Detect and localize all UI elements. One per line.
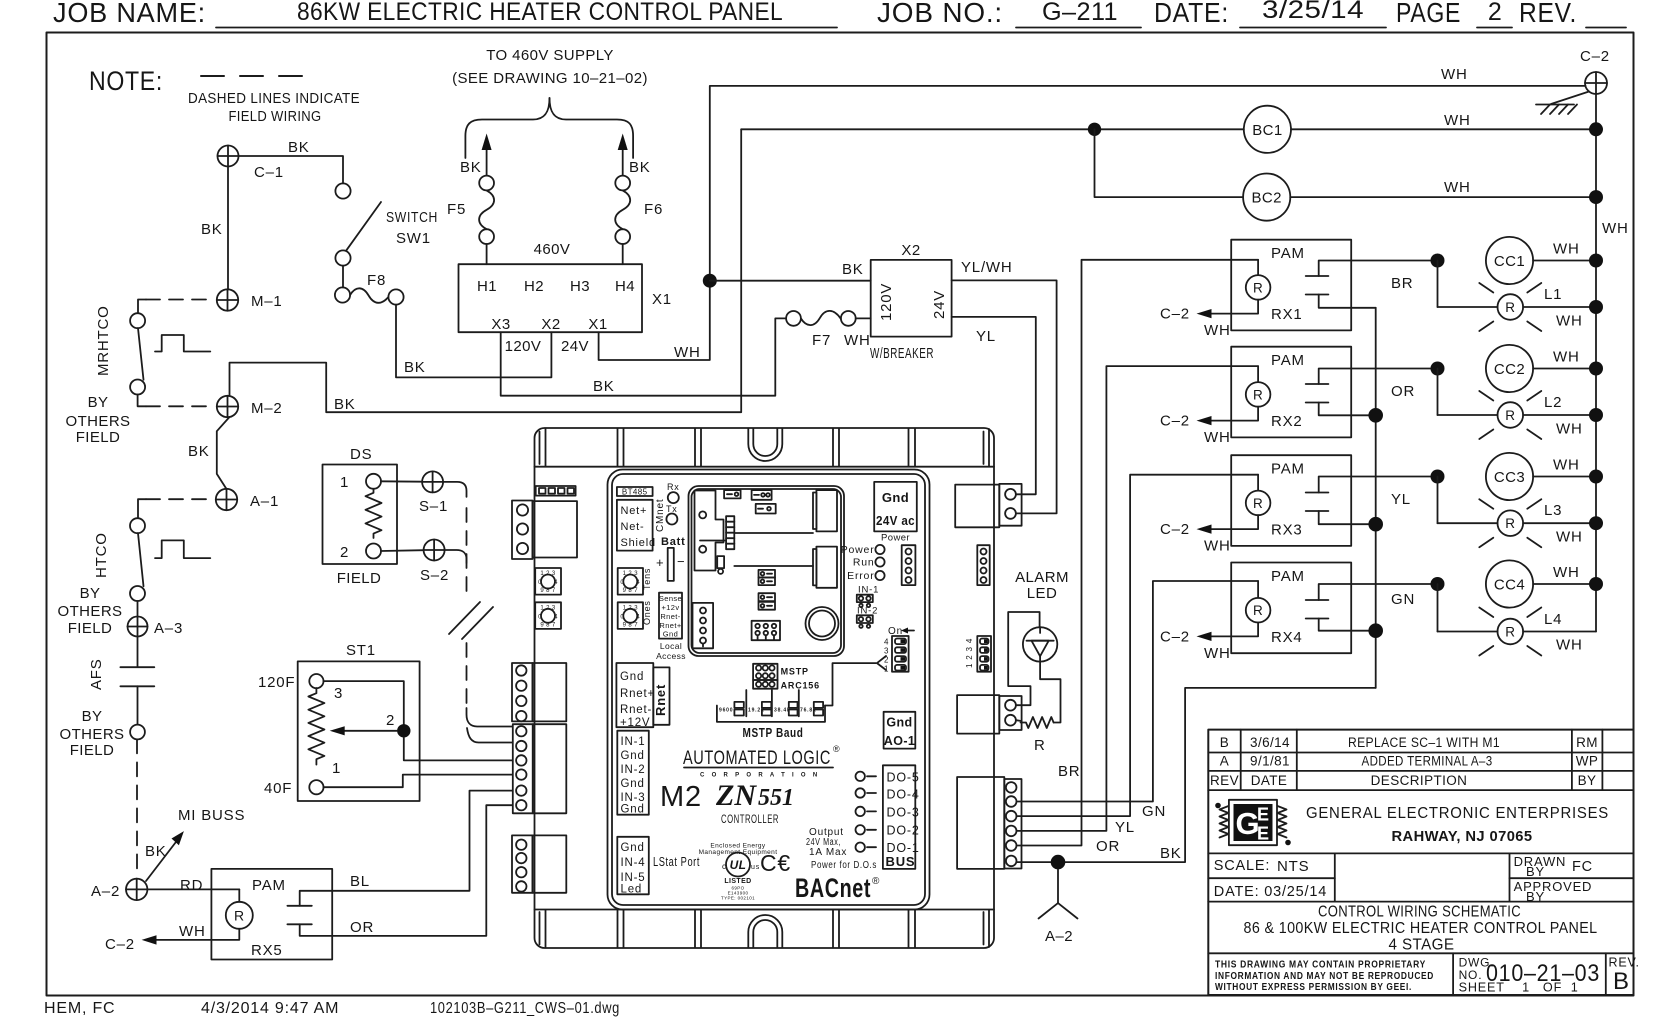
svg-text:WH: WH bbox=[1553, 457, 1580, 474]
svg-text:R: R bbox=[1253, 496, 1263, 511]
pilot light L4 bbox=[1438, 584, 1597, 656]
svg-text:DO-3: DO-3 bbox=[887, 806, 920, 820]
wire C-2 arrow RX2 bbox=[1160, 407, 1258, 446]
rotary dial left 1 bbox=[535, 568, 561, 595]
terminal M-2 bbox=[217, 396, 283, 417]
junction dot L3 right bbox=[1589, 516, 1603, 530]
ground symbol bbox=[1536, 92, 1589, 115]
svg-text:IN-2: IN-2 bbox=[621, 764, 646, 776]
svg-text:PAM: PAM bbox=[1271, 568, 1305, 585]
svg-text:ARC156: ARC156 bbox=[781, 681, 820, 691]
svg-text:R: R bbox=[1253, 387, 1263, 402]
svg-text:BY: BY bbox=[1578, 773, 1597, 788]
jumper IN-2 bbox=[857, 606, 878, 628]
svg-text:WH: WH bbox=[1556, 421, 1583, 438]
svg-text:CC2: CC2 bbox=[1494, 361, 1525, 378]
svg-text:TYPE: 002101: TYPE: 002101 bbox=[721, 896, 755, 901]
connector right flange 4pin bbox=[977, 545, 989, 585]
svg-text:Batt: Batt bbox=[661, 536, 686, 548]
svg-text:551: 551 bbox=[758, 785, 794, 811]
svg-text:X1: X1 bbox=[652, 291, 672, 308]
svg-text:0: 0 bbox=[538, 615, 542, 621]
connector 3x3 grid bbox=[752, 621, 780, 640]
svg-text:Rnet-: Rnet- bbox=[620, 704, 652, 716]
svg-text:ALARM: ALARM bbox=[1015, 569, 1069, 586]
header date label bbox=[1154, 0, 1229, 28]
svg-text:B: B bbox=[1613, 968, 1630, 995]
svg-text:Rnet+: Rnet+ bbox=[620, 688, 655, 700]
arrow MI BUSS bbox=[145, 807, 245, 881]
company name bbox=[1306, 805, 1609, 845]
label 120F wiper 2 bbox=[386, 712, 395, 729]
drawing title bbox=[1244, 904, 1598, 954]
svg-text:24V: 24V bbox=[561, 338, 589, 355]
svg-text:NTS: NTS bbox=[1277, 858, 1309, 875]
svg-text:BUS: BUS bbox=[886, 854, 916, 869]
wire F5 to H1 bbox=[486, 244, 488, 264]
cable hash marks bbox=[449, 602, 493, 639]
svg-text:3/6/14: 3/6/14 bbox=[1250, 735, 1290, 750]
svg-text:PAM: PAM bbox=[1271, 245, 1305, 262]
svg-text:DATE:: DATE: bbox=[1154, 0, 1229, 28]
svg-text:BK: BK bbox=[188, 443, 210, 460]
label by others field 1 bbox=[66, 394, 131, 446]
svg-text:460V: 460V bbox=[534, 241, 571, 258]
svg-text:PAM: PAM bbox=[252, 877, 286, 894]
svg-text:SW1: SW1 bbox=[396, 230, 431, 247]
svg-text:0: 0 bbox=[620, 580, 624, 586]
svg-text:L3: L3 bbox=[1544, 502, 1562, 519]
svg-text:A–2: A–2 bbox=[1045, 928, 1073, 945]
svg-text:OTHERS: OTHERS bbox=[66, 413, 131, 430]
svg-text:DO-2: DO-2 bbox=[887, 824, 920, 838]
svg-text:1 2 3: 1 2 3 bbox=[623, 571, 639, 577]
jumper small 2 bbox=[752, 490, 772, 500]
wire YL X2 24v common bbox=[952, 317, 1036, 494]
output terminal Gnd AO-1 bbox=[884, 712, 916, 749]
wire BK WH-node to X2 primary bbox=[710, 261, 871, 281]
revision header row bbox=[1210, 773, 1596, 788]
svg-text:1 2 3 4: 1 2 3 4 bbox=[965, 638, 974, 668]
svg-text:Gnd: Gnd bbox=[886, 716, 912, 730]
svg-text:THIS DRAWING MAY CONTAIN P: THIS DRAWING MAY CONTAIN PROPRIETARY bbox=[1215, 960, 1426, 971]
svg-text:A–2: A–2 bbox=[91, 883, 120, 900]
terminal block C 6-pin inputs bbox=[513, 724, 567, 813]
contactor coil CC3 bbox=[1486, 453, 1596, 500]
svg-text:FIELD: FIELD bbox=[68, 620, 113, 637]
svg-text:C€: C€ bbox=[760, 850, 791, 876]
wire dashed M-1 field bbox=[138, 300, 214, 314]
svg-text:BR: BR bbox=[1391, 275, 1413, 292]
svg-text:4 STAGE: 4 STAGE bbox=[1389, 937, 1455, 954]
svg-text:AFS: AFS bbox=[88, 658, 105, 690]
svg-text:MSTP: MSTP bbox=[781, 667, 809, 677]
svg-text:Net+: Net+ bbox=[621, 505, 648, 517]
svg-text:R: R bbox=[1505, 516, 1515, 531]
svg-text:CONTROL WIRING SCHEMATIC: CONTROL WIRING SCHEMATIC bbox=[1318, 904, 1521, 921]
svg-text:Local: Local bbox=[660, 641, 682, 651]
svg-text:FC: FC bbox=[1572, 859, 1593, 875]
wire F7 to X2 bbox=[856, 317, 871, 319]
svg-text:WH: WH bbox=[1444, 112, 1471, 129]
contactor coil CC1 bbox=[1486, 237, 1596, 284]
led alarm bbox=[1023, 627, 1057, 661]
relay block 1 bbox=[813, 490, 837, 531]
junction dot L1 right bbox=[1589, 300, 1603, 314]
svg-text:X3: X3 bbox=[491, 316, 510, 333]
connector Net block bbox=[617, 499, 666, 551]
svg-text:PAGE: PAGE bbox=[1396, 0, 1461, 28]
potentiometer ST1 bbox=[258, 642, 420, 801]
svg-text:Gnd: Gnd bbox=[882, 490, 909, 505]
svg-text:DATE: 03/25/14: DATE: 03/25/14 bbox=[1214, 884, 1327, 900]
note dashed-line sample bbox=[201, 75, 302, 77]
svg-text:WH: WH bbox=[1204, 538, 1231, 555]
terminal block A 3-pin bbox=[512, 501, 577, 560]
svg-text:R: R bbox=[1034, 737, 1046, 754]
svg-text:4: 4 bbox=[554, 615, 558, 621]
svg-text:4: 4 bbox=[554, 580, 558, 586]
junction dot rail RX2 bbox=[1368, 408, 1383, 423]
svg-text:BK: BK bbox=[201, 221, 223, 238]
footer filename text bbox=[430, 1000, 620, 1017]
svg-text:H2: H2 bbox=[524, 278, 544, 295]
junction dot WH node bbox=[703, 274, 717, 288]
header page value bbox=[1477, 0, 1512, 28]
svg-text:24V ac: 24V ac bbox=[876, 513, 915, 528]
svg-text:IN-3: IN-3 bbox=[621, 792, 646, 804]
svg-text:DS: DS bbox=[350, 446, 372, 463]
svg-text:LISTED: LISTED bbox=[724, 878, 751, 885]
wire C-2 arrow RX4 bbox=[1160, 623, 1258, 662]
svg-text:0: 0 bbox=[620, 615, 624, 621]
wire contact common rail bbox=[1375, 308, 1377, 688]
header page label bbox=[1396, 0, 1461, 28]
wire BL RX5 to controller bbox=[332, 791, 512, 891]
svg-text:REPLACE SC–1 WITH M1: REPLACE SC–1 WITH M1 bbox=[1348, 735, 1500, 750]
svg-text:WITHOUT EXPRESS PERMISSION: WITHOUT EXPRESS PERMISSION BY GEEI. bbox=[1215, 982, 1412, 993]
junction dot ST1 wiper bbox=[397, 724, 410, 737]
svg-text:Gnd: Gnd bbox=[621, 842, 645, 854]
controller M2 ZN551 outer shell bbox=[535, 428, 995, 948]
connector main polygon bbox=[695, 491, 724, 571]
label to 460v supply bbox=[452, 47, 648, 87]
terminal block 24vac right bbox=[955, 484, 1021, 527]
svg-text:REV.: REV. bbox=[1519, 0, 1577, 28]
svg-text:A–1: A–1 bbox=[250, 493, 279, 510]
wire C-2 arrow RX1 bbox=[1160, 300, 1258, 339]
dwg number field bbox=[1459, 956, 1600, 995]
relay PAM RX5 bbox=[211, 869, 332, 960]
svg-text:DATE: DATE bbox=[1251, 773, 1288, 788]
transformer X1 bbox=[459, 264, 672, 333]
svg-text:F6: F6 bbox=[644, 201, 663, 218]
svg-text:Gnd: Gnd bbox=[621, 750, 645, 762]
wire dashed field cable S-1/S-2 to controller bbox=[443, 482, 512, 743]
terminal A-1 bbox=[216, 489, 279, 510]
terminal C-2 top right bbox=[1580, 48, 1610, 94]
header rev label bbox=[1519, 0, 1626, 28]
svg-text:R: R bbox=[1253, 280, 1263, 295]
svg-text:OTHERS: OTHERS bbox=[58, 603, 123, 620]
header job no label bbox=[877, 0, 1003, 28]
wire BC2 branch bbox=[1095, 129, 1597, 197]
rev field bbox=[1609, 956, 1640, 996]
svg-text:WH: WH bbox=[1602, 220, 1629, 237]
junction dot CC4 right bbox=[1589, 577, 1603, 591]
junction dot BC feed bbox=[1088, 123, 1101, 136]
svg-text:FIELD: FIELD bbox=[70, 742, 115, 759]
svg-text:M2: M2 bbox=[660, 781, 702, 813]
wire dashed MRHTCO to M-2 bbox=[138, 395, 213, 407]
battery Batt bbox=[656, 536, 686, 581]
note label bbox=[89, 66, 163, 96]
terminal block DO right bbox=[957, 777, 1021, 869]
jumper mid 3 bbox=[759, 593, 776, 601]
svg-text:120V: 120V bbox=[505, 338, 542, 355]
led Rx Tx bbox=[666, 482, 680, 525]
svg-text:BACnet: BACnet bbox=[795, 873, 871, 903]
svg-text:BY: BY bbox=[1526, 864, 1545, 879]
buzzer ring bbox=[806, 607, 839, 640]
svg-text:2: 2 bbox=[386, 712, 395, 729]
svg-text:RD: RD bbox=[180, 877, 203, 894]
jumper MSTP bbox=[753, 664, 809, 680]
junction dot BC2 right bbox=[1589, 190, 1603, 204]
power terminal Gnd 24Vac bbox=[874, 482, 917, 544]
svg-text:9 8 7: 9 8 7 bbox=[540, 623, 556, 629]
junction dot CC2 left bbox=[1431, 362, 1445, 376]
resistor R alarm bbox=[1016, 717, 1054, 754]
svg-text:H1: H1 bbox=[477, 278, 497, 295]
jumper ARC156 bbox=[753, 680, 820, 691]
svg-text:3: 3 bbox=[884, 647, 889, 656]
wire SW1 to F8 bbox=[342, 266, 344, 288]
svg-text:Shield: Shield bbox=[621, 537, 656, 549]
svg-text:C–2: C–2 bbox=[1580, 48, 1610, 65]
svg-text:9 8 7: 9 8 7 bbox=[623, 623, 639, 629]
wire right rail WH bbox=[1596, 94, 1629, 632]
junction dot rail RX3 bbox=[1368, 517, 1383, 532]
svg-text:G–211: G–211 bbox=[1042, 0, 1118, 26]
wire dashed AFS to A-2 bbox=[136, 739, 138, 876]
wire OR RX5 to controller bbox=[332, 805, 512, 936]
wire alarm led anode bbox=[1008, 612, 1039, 705]
svg-text:HEM, FC: HEM, FC bbox=[44, 1000, 115, 1017]
jumper mid 2 bbox=[759, 578, 776, 586]
junction dot A-2 tap bbox=[1051, 855, 1066, 870]
terminal A-3 bbox=[128, 617, 184, 638]
component fuse small bbox=[717, 556, 724, 574]
terminal A-2 bbox=[91, 879, 147, 900]
wire OR DO to RX2 bbox=[1017, 366, 1259, 855]
svg-text:+12v: +12v bbox=[661, 603, 679, 612]
svg-text:BY: BY bbox=[88, 394, 109, 411]
svg-text:120F: 120F bbox=[258, 674, 295, 691]
label GN stage4 bbox=[1391, 591, 1415, 608]
footer date text bbox=[201, 1000, 339, 1017]
rotary dial Ones bbox=[618, 600, 652, 629]
terminal block B 4-pin bbox=[512, 663, 566, 721]
svg-text:WH: WH bbox=[1441, 66, 1468, 83]
svg-text:WH: WH bbox=[1553, 349, 1580, 366]
svg-text:Gnd: Gnd bbox=[621, 778, 645, 790]
svg-text:PAM: PAM bbox=[1271, 461, 1305, 478]
svg-text:BK: BK bbox=[460, 159, 482, 176]
svg-text:BC2: BC2 bbox=[1252, 190, 1282, 207]
svg-text:FIELD: FIELD bbox=[76, 429, 121, 446]
svg-text:ADDED TERMINAL A–3: ADDED TERMINAL A–3 bbox=[1362, 754, 1493, 769]
svg-text:4: 4 bbox=[884, 638, 889, 647]
brace 460v supply bbox=[465, 98, 633, 158]
connector Rnet block bbox=[616, 663, 669, 729]
svg-text:E: E bbox=[1257, 824, 1269, 844]
selector MSTP baud bbox=[717, 690, 825, 740]
fuse F7 bbox=[786, 311, 870, 349]
disconnect DS bbox=[323, 446, 398, 587]
rotary dial Tens bbox=[618, 568, 652, 595]
svg-text:Net-: Net- bbox=[621, 521, 645, 533]
date field bbox=[1214, 884, 1327, 900]
label WH top line bbox=[1441, 66, 1468, 83]
svg-text:4/3/2014 9:47 AM: 4/3/2014 9:47 AM bbox=[201, 1000, 339, 1017]
revision row B bbox=[1220, 735, 1598, 750]
svg-text:C–2: C–2 bbox=[105, 936, 135, 953]
contactor coil CC2 bbox=[1486, 345, 1596, 392]
svg-text:WH: WH bbox=[1204, 429, 1231, 446]
svg-text:AUTOMATED LOGIC: AUTOMATED LOGIC bbox=[683, 747, 831, 769]
junction dot CC3 left bbox=[1431, 470, 1445, 484]
svg-text:L2: L2 bbox=[1544, 394, 1562, 411]
jumper small 1 bbox=[724, 490, 741, 498]
svg-text:Tx: Tx bbox=[666, 504, 678, 514]
svg-text:−: − bbox=[677, 554, 685, 569]
svg-text:Sense: Sense bbox=[659, 594, 682, 603]
svg-text:(SEE DRAWING 10–21–02): (SEE DRAWING 10–21–02) bbox=[452, 70, 648, 87]
svg-text:BL: BL bbox=[350, 873, 370, 890]
svg-text:ZN: ZN bbox=[715, 779, 757, 812]
svg-text:Access: Access bbox=[656, 651, 686, 661]
wire RD A-2 to RX5 bbox=[147, 877, 239, 894]
coil BC2 bbox=[1243, 174, 1290, 221]
svg-text:BC1: BC1 bbox=[1252, 122, 1282, 139]
label BR stage1 bbox=[1391, 275, 1413, 292]
relay block 2 bbox=[813, 547, 837, 588]
svg-text:YL: YL bbox=[1115, 819, 1135, 836]
svg-text:Rnet-: Rnet- bbox=[660, 612, 680, 621]
svg-text:AO-1: AO-1 bbox=[884, 734, 915, 748]
proprietary note bbox=[1215, 960, 1434, 994]
svg-text:DO-5: DO-5 bbox=[887, 771, 920, 785]
dip switch block bbox=[884, 626, 914, 674]
wire BK C-1 down to M-1 bbox=[201, 167, 228, 290]
label 120V 24V under X1 bbox=[505, 338, 589, 355]
wire BK M-2 up to BC feed bbox=[230, 129, 742, 413]
svg-text:R: R bbox=[1505, 625, 1515, 640]
svg-text:WH: WH bbox=[1556, 529, 1583, 546]
capacitor AFS air flow switch bbox=[88, 637, 154, 725]
wire module traces bbox=[700, 533, 813, 566]
wire BK X3 to F7 bbox=[501, 318, 786, 395]
led power run error bbox=[841, 544, 885, 582]
wire YL/WH X2 24v hot bbox=[952, 259, 1057, 513]
svg-text:Tens: Tens bbox=[642, 568, 652, 590]
wire ST1 terminal 3 to wiper node bbox=[324, 681, 404, 724]
svg-text:R: R bbox=[1505, 408, 1515, 423]
svg-text:C–2: C–2 bbox=[1160, 628, 1190, 645]
svg-text:Gnd: Gnd bbox=[663, 630, 678, 639]
svg-text:YL/WH: YL/WH bbox=[961, 259, 1013, 276]
junction dot BC1 right bbox=[1589, 122, 1603, 136]
svg-text:us: us bbox=[751, 864, 760, 871]
wire GN DO to RX4 bbox=[1017, 581, 1259, 820]
wire BK F8 to X2 terminal of X1 bbox=[396, 305, 551, 378]
svg-text:C–1: C–1 bbox=[254, 164, 284, 181]
svg-text:4: 4 bbox=[636, 615, 640, 621]
svg-text:+: + bbox=[656, 555, 664, 570]
svg-text:3/25/14: 3/25/14 bbox=[1262, 0, 1364, 24]
terminal S-2 bbox=[420, 540, 449, 585]
header job no value bbox=[1016, 0, 1141, 28]
svg-text:BY: BY bbox=[1526, 889, 1545, 904]
svg-text:102103B–G211_CWS–01.dwg: 102103B–G211_CWS–01.dwg bbox=[430, 1000, 620, 1017]
svg-text:IN-5: IN-5 bbox=[621, 872, 646, 884]
svg-text:RAHWAY, NJ 07065: RAHWAY, NJ 07065 bbox=[1392, 829, 1533, 845]
svg-text:LStat Port: LStat Port bbox=[653, 854, 700, 869]
wire C-2 arrow RX3 bbox=[1160, 515, 1258, 554]
svg-text:WH: WH bbox=[1204, 645, 1231, 662]
pilot light L1 bbox=[1438, 261, 1597, 332]
svg-text:1: 1 bbox=[340, 474, 349, 491]
svg-text:UL: UL bbox=[730, 858, 747, 872]
mark UL listed bbox=[699, 843, 778, 901]
svg-text:H4: H4 bbox=[615, 278, 635, 295]
svg-text:M–1: M–1 bbox=[251, 293, 283, 310]
svg-text:RM: RM bbox=[1576, 735, 1598, 750]
svg-text:M–2: M–2 bbox=[251, 400, 283, 417]
svg-text:G: G bbox=[1236, 806, 1260, 841]
junction dot rail RX4 bbox=[1368, 623, 1383, 638]
terminal M-1 bbox=[217, 289, 283, 310]
relay PAM RX3 bbox=[1231, 455, 1437, 546]
wire HTCO to A-3 bbox=[137, 601, 139, 617]
connector 4pin power bbox=[902, 545, 916, 585]
svg-text:INFORMATION AND MAY NOT BE: INFORMATION AND MAY NOT BE REPRODUCED bbox=[1215, 971, 1434, 982]
svg-text:Run: Run bbox=[853, 557, 875, 569]
drawn by field bbox=[1514, 854, 1593, 879]
svg-text:WH: WH bbox=[1444, 179, 1471, 196]
junction dot CC1 left bbox=[1431, 254, 1445, 268]
jumper IN-1 bbox=[857, 585, 879, 608]
svg-text:BK: BK bbox=[593, 378, 615, 395]
svg-text:RX4: RX4 bbox=[1271, 629, 1303, 646]
label output ratings bbox=[806, 827, 877, 871]
junction dot CC4 left bbox=[1431, 577, 1445, 591]
svg-text:86KW ELECTRIC HEATER CONTRO: 86KW ELECTRIC HEATER CONTROL PANEL bbox=[297, 0, 783, 26]
logo BACnet bbox=[795, 873, 880, 903]
connector LStat block bbox=[617, 837, 700, 896]
svg-text:E: E bbox=[1257, 805, 1269, 825]
fuse F8 bbox=[335, 272, 404, 305]
svg-text:DO-4: DO-4 bbox=[887, 788, 920, 802]
svg-text:CC4: CC4 bbox=[1494, 577, 1525, 594]
dip right flange 1234 bbox=[965, 636, 991, 672]
arrow up F6 bbox=[618, 134, 651, 177]
svg-text:BY: BY bbox=[80, 585, 101, 602]
svg-text:BK: BK bbox=[145, 843, 167, 860]
svg-text:RX2: RX2 bbox=[1271, 413, 1303, 430]
svg-text:WH: WH bbox=[1556, 313, 1583, 330]
